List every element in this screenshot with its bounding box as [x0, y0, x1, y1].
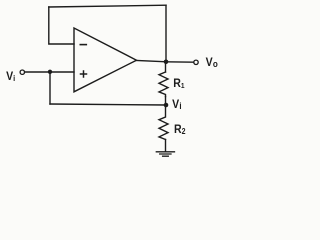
output terminal circle — [194, 60, 198, 64]
wire: R1 to node — [165, 97, 167, 106]
wire: input junction down — [49, 72, 51, 104]
resistor R1 — [159, 72, 168, 97]
ground — [156, 152, 174, 156]
node: divider node dot — [164, 103, 169, 108]
op-amp U1 — [74, 28, 137, 92]
wire: output to terminal — [166, 61, 194, 63]
wire: R2 to ground — [165, 140, 167, 152]
svg-text:Vi: Vi — [172, 99, 182, 112]
wire: feedback left drop to inverting input — [49, 7, 74, 44]
wire: feedback top rail — [49, 5, 166, 7]
input terminal circle — [20, 70, 24, 74]
node: output dot — [164, 60, 169, 65]
wire: op-amp output — [137, 60, 167, 61]
wire: input Vi to noninverting input — [25, 71, 74, 73]
wire: output node up to feedback rail — [165, 5, 167, 61]
svg-text:Vo: Vo — [206, 57, 218, 70]
op-amp noninverting input plus sign — [81, 71, 87, 77]
wire: output node down to R1 — [165, 62, 167, 72]
node: input junction dot — [48, 70, 52, 74]
resistor R2 — [159, 105, 168, 140]
wire: bottom run to divider node — [50, 104, 166, 105]
op-amp inverting input minus sign — [80, 44, 86, 46]
